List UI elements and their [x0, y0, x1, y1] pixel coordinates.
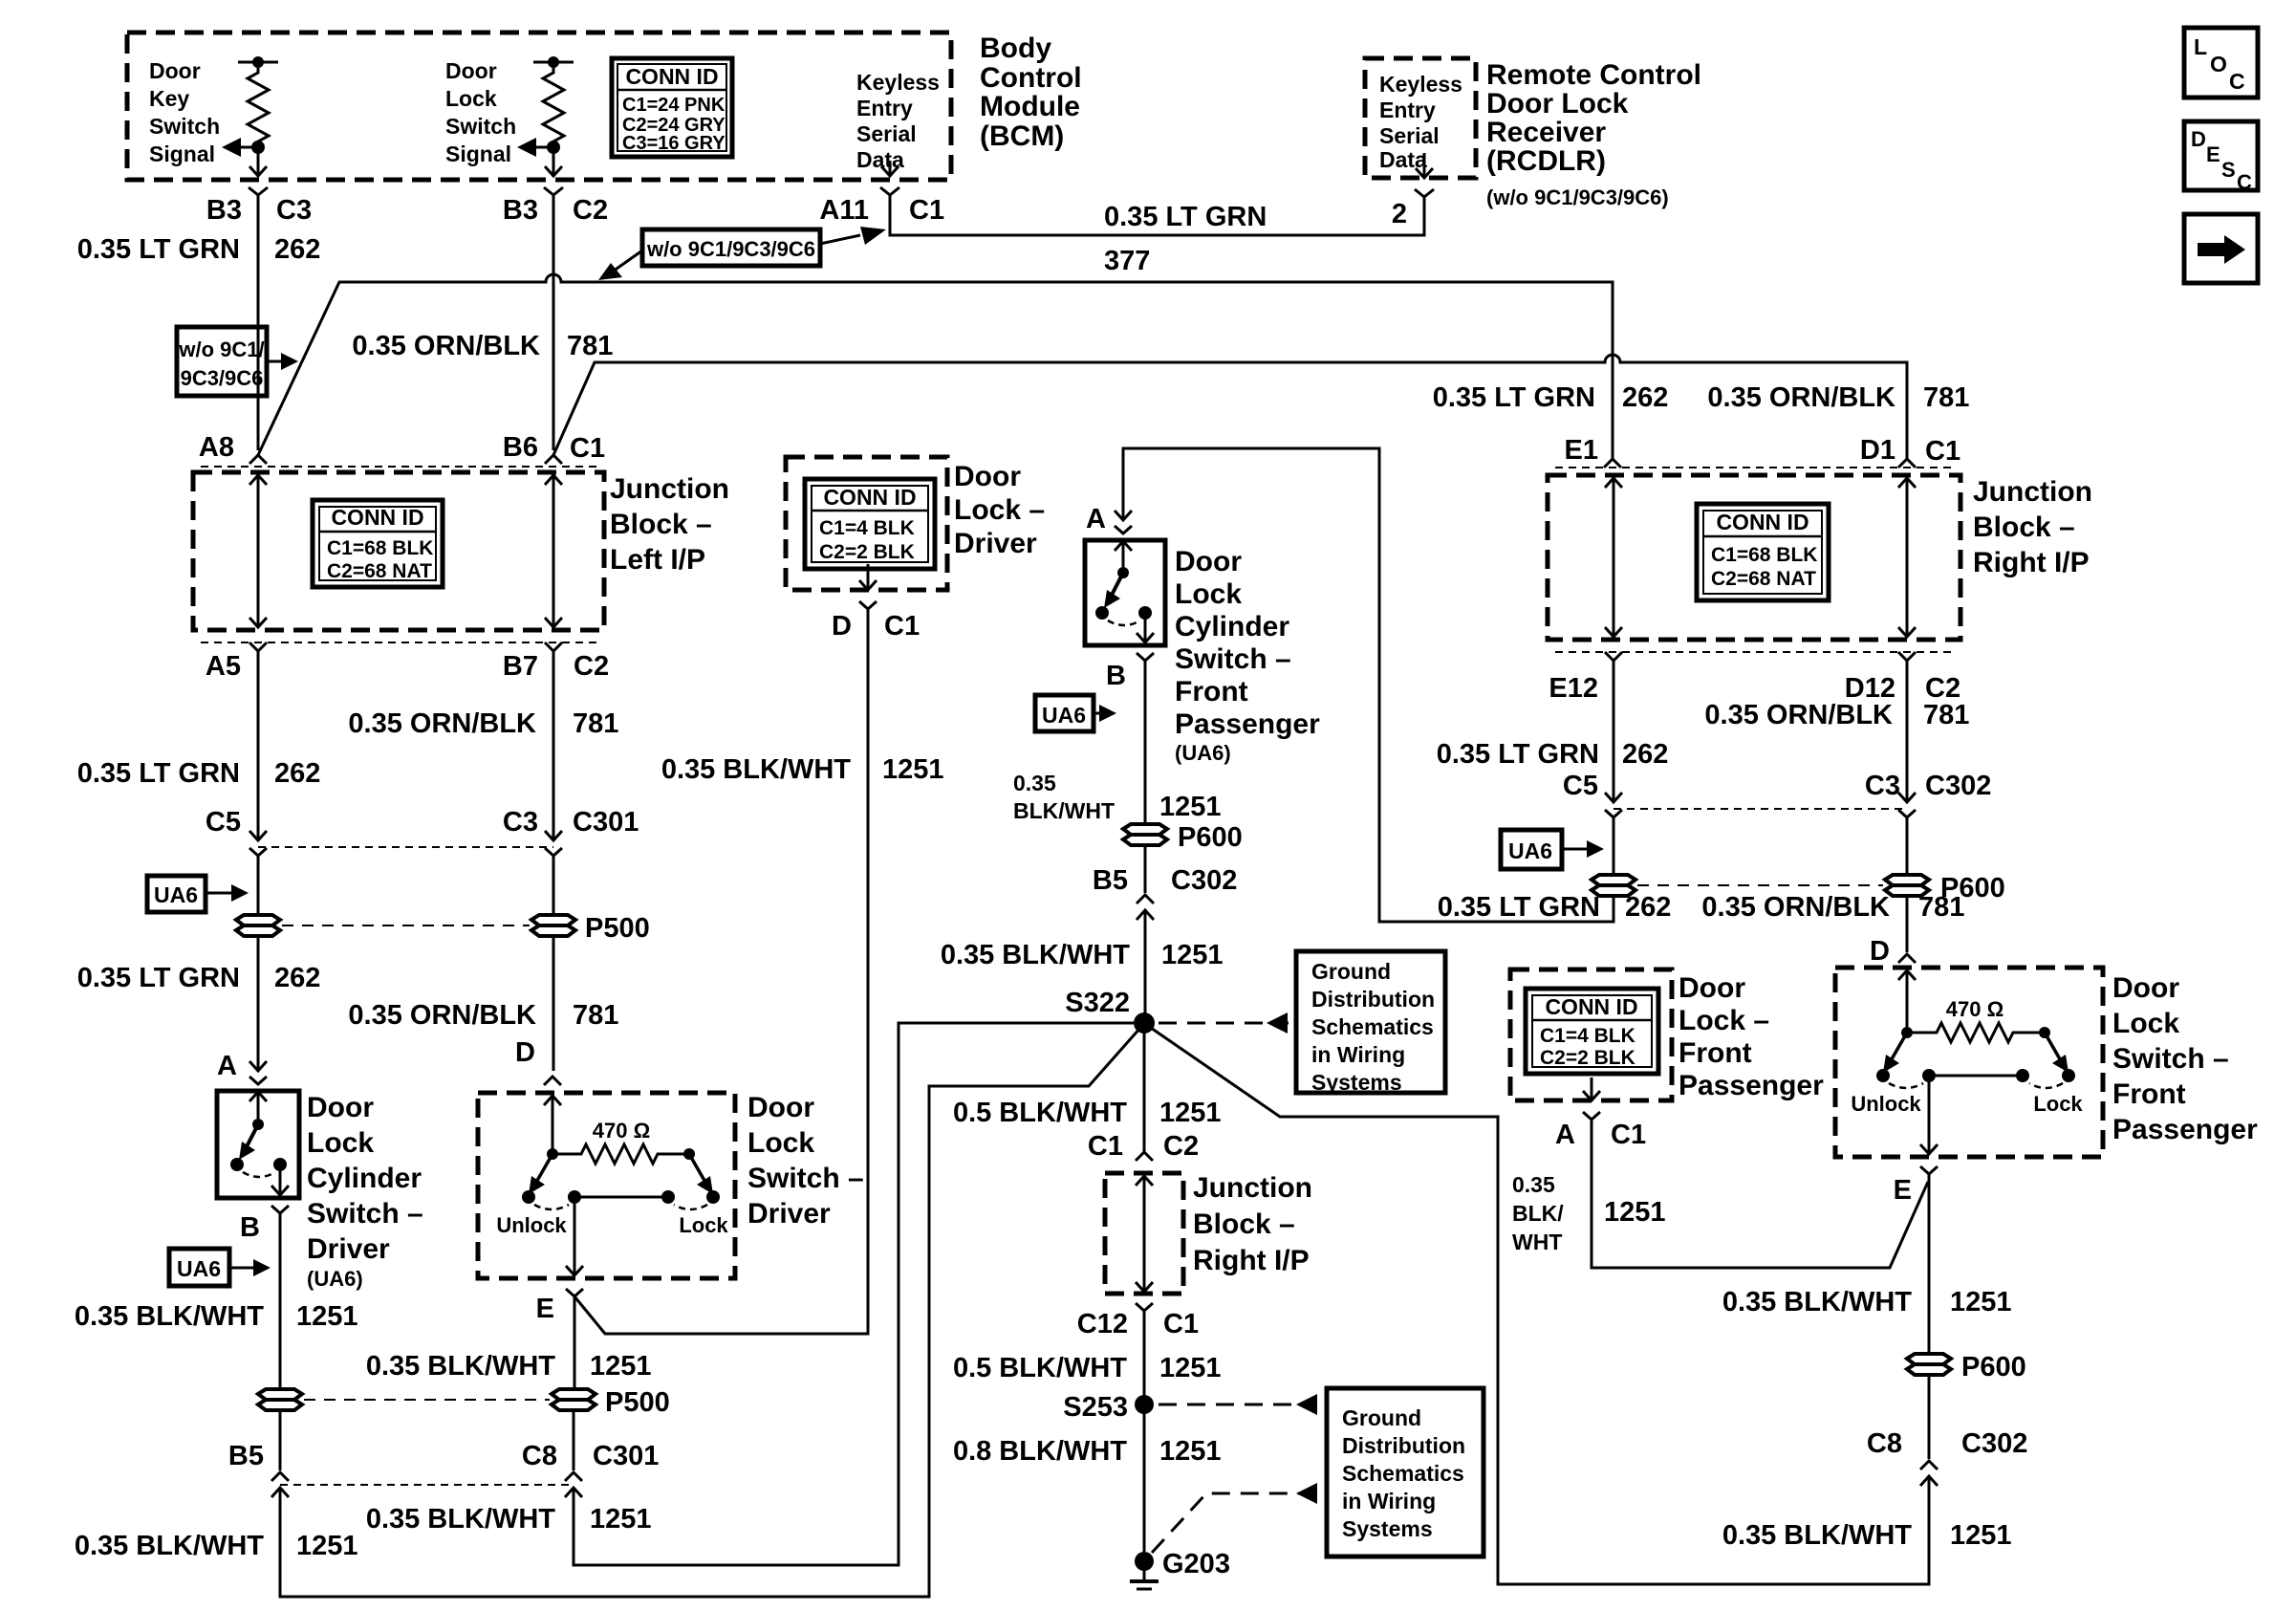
svg-text:0.35 ORN/BLK: 0.35 ORN/BLK: [1707, 382, 1895, 413]
svg-text:Cylinder: Cylinder: [1175, 611, 1289, 642]
svg-text:C3=16 GRY: C3=16 GRY: [622, 133, 726, 154]
svg-text:0.35 BLK/WHT: 0.35 BLK/WHT: [1722, 1287, 1912, 1317]
svg-text:1251: 1251: [1950, 1520, 2012, 1551]
label 0.35 LT GRN 262 (right bottom): [1438, 892, 1672, 923]
svg-text:C8: C8: [522, 1441, 557, 1471]
label 0.35 BLK/WHT 1251 (FP E wire): [1722, 1287, 2012, 1317]
svg-text:A5: A5: [206, 651, 241, 682]
svg-text:Lock: Lock: [1175, 578, 1242, 610]
pin A arrow and fork (FP cylinder switch): [1115, 511, 1132, 533]
label Door Lock Switch Signal: [445, 58, 516, 166]
svg-text:781: 781: [1923, 700, 1969, 730]
svg-text:B: B: [1106, 661, 1126, 691]
svg-text:Lock: Lock: [747, 1127, 814, 1159]
svg-text:Right I/P: Right I/P: [1193, 1245, 1310, 1276]
connector C5 fork and arrow (right): [1605, 793, 1622, 817]
svg-text:Ground: Ground: [1342, 1405, 1421, 1430]
wire B5 to S322: [1144, 910, 1147, 1013]
svg-text:0.35 ORN/BLK: 0.35 ORN/BLK: [352, 331, 540, 361]
svg-text:C302: C302: [1961, 1428, 2027, 1459]
pin A C1 fork (door lock FP): [1583, 1112, 1600, 1120]
pin A8 fork: [249, 455, 267, 464]
label 0.35 LT GRN 262 (top left): [77, 234, 321, 265]
wire P600 to B5 connector: [1144, 845, 1147, 893]
svg-text:UA6: UA6: [177, 1256, 221, 1281]
connector line C1 (junction block left top): [201, 466, 597, 468]
svg-text:C1=24 PNK: C1=24 PNK: [622, 95, 726, 116]
svg-text:Keyless: Keyless: [1379, 72, 1462, 97]
svg-text:B: B: [240, 1212, 260, 1243]
svg-text:O: O: [2210, 52, 2227, 76]
connector C3/C301 (arrow and fork): [545, 831, 562, 856]
svg-text:C1: C1: [1925, 436, 1960, 467]
svg-text:781: 781: [573, 1000, 618, 1031]
splice S253: [1135, 1395, 1154, 1414]
connector line P600 dashed: [1637, 884, 1883, 886]
svg-text:Systems: Systems: [1342, 1516, 1433, 1541]
svg-text:C2=68 NAT: C2=68 NAT: [1711, 568, 1816, 590]
resistor 470 ohm (driver switch): [544, 1096, 695, 1164]
svg-text:B5: B5: [1093, 865, 1128, 896]
svg-text:w/o 9C1/: w/o 9C1/: [178, 337, 264, 361]
Door Lock Front Passenger connector dashed box: [1510, 969, 1672, 1100]
pin 2 fork: [1415, 189, 1434, 197]
svg-text:Signal: Signal: [149, 142, 215, 166]
svg-text:Door: Door: [2112, 972, 2179, 1004]
svg-text:Body: Body: [980, 33, 1051, 64]
svg-text:C1: C1: [1611, 1120, 1646, 1150]
wire B down to P600 (FP cyl): [1144, 661, 1147, 824]
Junction Block Right I/P dashed box: [1548, 475, 1960, 640]
wire B5 lower segment: [279, 1410, 282, 1470]
small JB internal wire: [1136, 1176, 1153, 1292]
svg-text:1251: 1251: [1161, 940, 1224, 970]
svg-text:D: D: [832, 611, 852, 642]
svg-text:C302: C302: [1925, 771, 1991, 801]
pin B3 C3 fork: [249, 187, 268, 195]
ground G203: [1130, 1552, 1159, 1589]
svg-text:Lock: Lock: [679, 1213, 728, 1237]
svg-text:2: 2: [1392, 199, 1407, 229]
door lock cylinder switch front passenger box: [1085, 540, 1165, 645]
svg-text:470 Ω: 470 Ω: [593, 1119, 650, 1143]
inline connector P600 (ORN/BLK right): [1885, 875, 1929, 896]
svg-text:1251: 1251: [1159, 1353, 1222, 1383]
label Junction Block - Left I/P: [610, 473, 729, 576]
label Keyless Entry Serial Data (RCDLR): [1379, 72, 1462, 172]
wire S322 down to junction block: [1143, 1023, 1146, 1152]
switch contacts (FP cylinder switch): [1095, 540, 1154, 642]
svg-text:C3: C3: [503, 807, 538, 838]
svg-text:Lock: Lock: [2033, 1092, 2083, 1116]
svg-text:Driver: Driver: [307, 1233, 390, 1265]
svg-text:0.35 ORN/BLK: 0.35 ORN/BLK: [1704, 700, 1893, 730]
svg-text:D: D: [1870, 936, 1890, 967]
label Junction Block - Right I/P (small): [1193, 1172, 1312, 1276]
svg-text:0.35 BLK/WHT: 0.35 BLK/WHT: [941, 940, 1130, 970]
svg-text:0.35 LT GRN: 0.35 LT GRN: [1438, 892, 1600, 923]
label 0.35 LT GRN 262 (to right JB): [1433, 382, 1669, 413]
connector line (junction block right bottom): [1555, 651, 1953, 653]
svg-text:0.35 BLK/WHT: 0.35 BLK/WHT: [366, 1504, 555, 1535]
svg-text:D1: D1: [1860, 435, 1895, 466]
svg-text:Lock: Lock: [307, 1127, 374, 1159]
svg-text:C2=68 NAT: C2=68 NAT: [327, 560, 432, 582]
svg-text:E: E: [536, 1294, 554, 1324]
w/o 9C1/ 9C3/9C6 box (left): [177, 327, 267, 396]
svg-text:1251: 1251: [590, 1504, 652, 1535]
svg-text:G203: G203: [1162, 1549, 1230, 1579]
svg-text:0.35 ORN/BLK: 0.35 ORN/BLK: [348, 708, 536, 739]
junction block right internal wire D1-D12: [1898, 478, 1916, 637]
svg-text:BLK/: BLK/: [1512, 1201, 1564, 1226]
svg-text:Door: Door: [149, 58, 201, 83]
svg-text:Passenger: Passenger: [2112, 1114, 2258, 1145]
label 0.35 ORN/BLK 781 (below JB right): [1704, 700, 1969, 730]
svg-text:1251: 1251: [296, 1531, 358, 1561]
pin B fork (FP cylinder switch): [1137, 653, 1154, 661]
Remote Control Door Lock Receiver dashed box: [1365, 58, 1476, 178]
svg-text:Front: Front: [1175, 676, 1248, 708]
svg-text:A11: A11: [819, 195, 869, 226]
inline connector P600 (FP cyl wire): [1123, 824, 1167, 845]
svg-text:Distribution: Distribution: [1342, 1433, 1465, 1458]
svg-text:Front: Front: [1679, 1037, 1752, 1069]
svg-text:781: 781: [1923, 382, 1969, 413]
label Door Lock Cylinder Switch - Driver (UA6): [307, 1092, 423, 1291]
pin C1/C2 fork (small JB): [1136, 1152, 1153, 1161]
svg-text:Door: Door: [445, 58, 497, 83]
svg-text:1251: 1251: [882, 754, 944, 785]
wire C302 to S322 (FP ground return): [1148, 1026, 1929, 1584]
svg-text:Door: Door: [1175, 546, 1242, 577]
svg-text:262: 262: [1622, 382, 1668, 413]
svg-text:C1=4 BLK: C1=4 BLK: [1540, 1025, 1635, 1047]
svg-text:C2: C2: [1163, 1131, 1199, 1162]
svg-text:Module: Module: [980, 91, 1080, 122]
svg-text:0.35 LT GRN: 0.35 LT GRN: [77, 234, 240, 265]
UA6 left arrow: [206, 884, 249, 902]
svg-text:E12: E12: [1549, 673, 1598, 704]
svg-text:D: D: [2191, 127, 2206, 151]
svg-text:0.35 BLK/WHT: 0.35 BLK/WHT: [75, 1301, 264, 1332]
svg-text:Distribution: Distribution: [1311, 987, 1435, 1012]
pin B3 C2 fork: [544, 187, 563, 195]
svg-text:Switch –: Switch –: [307, 1198, 423, 1230]
CONN ID box (junction block right): [1697, 504, 1829, 600]
svg-text:B5: B5: [228, 1441, 264, 1471]
pin A arrow and fork (driver cylinder switch): [249, 1061, 267, 1084]
pin B6 C1 fork: [545, 455, 562, 464]
svg-text:C301: C301: [573, 807, 639, 838]
connector line P500 dashed: [282, 925, 530, 926]
svg-text:Remote Control: Remote Control: [1486, 59, 1701, 91]
label 0.5 BLK/WHT 1251 (above small JB): [953, 1098, 1222, 1128]
svg-text:262: 262: [274, 758, 320, 789]
label Door Lock - Front Passenger: [1679, 972, 1824, 1101]
svg-text:1251: 1251: [1950, 1287, 2012, 1317]
wire ORN/BLK to FP switch D: [1906, 896, 1909, 952]
connector B5/C302 fork and arrow (FP): [1137, 895, 1154, 920]
wire A11 C1 to RCDLR pin 2: [890, 195, 1424, 235]
svg-text:Right I/P: Right I/P: [1973, 547, 2090, 578]
junction block left internal wire A8-A5: [249, 475, 267, 627]
label 0.35 BLK/WHT 1251 (above S322): [941, 940, 1224, 970]
svg-text:0.5 BLK/WHT: 0.5 BLK/WHT: [953, 1353, 1127, 1383]
junction block left internal wire B6-B7: [545, 475, 562, 627]
svg-text:Entry: Entry: [1379, 98, 1436, 122]
label Junction Block - Right I/P: [1973, 476, 2092, 578]
connector C5 (arrow and fork): [249, 831, 267, 856]
svg-text:B7: B7: [503, 651, 538, 682]
pin E1 fork: [1604, 459, 1621, 468]
wire E down to C8 (driver switch): [574, 1296, 574, 1470]
svg-text:1251: 1251: [1159, 1436, 1222, 1467]
svg-text:E: E: [2206, 142, 2220, 166]
door lock switch driver dashed box: [478, 1093, 735, 1278]
svg-text:C1: C1: [909, 195, 944, 226]
DESC box: [2184, 121, 2258, 194]
svg-text:C5: C5: [1563, 771, 1598, 801]
svg-text:S253: S253: [1063, 1392, 1128, 1423]
svg-text:0.35: 0.35: [1013, 771, 1056, 795]
svg-text:Switch –: Switch –: [2112, 1043, 2229, 1075]
label Door Lock Switch - Front Passenger: [2112, 972, 2258, 1145]
svg-text:Data: Data: [1379, 147, 1427, 172]
svg-text:Block –: Block –: [1193, 1208, 1295, 1240]
svg-text:CONN ID: CONN ID: [625, 64, 718, 89]
svg-text:L: L: [2194, 34, 2207, 59]
svg-text:0.8 BLK/WHT: 0.8 BLK/WHT: [953, 1436, 1127, 1467]
svg-text:C2=2 BLK: C2=2 BLK: [819, 541, 915, 563]
svg-text:C1: C1: [884, 611, 920, 642]
w/o 9C1/9C3/9C6 callout box: [642, 229, 820, 266]
svg-text:B3: B3: [206, 195, 242, 226]
door lock driver pin arrow (internal): [859, 564, 877, 590]
label 0.35 BLK/WHT 1251 (FP cyl): [1013, 771, 1222, 823]
label 0.35 ORN/BLK 781 (to right JB): [1707, 382, 1969, 413]
svg-text:Junction: Junction: [1973, 476, 2092, 508]
svg-text:P500: P500: [585, 913, 650, 944]
keyless entry pin arrow (BCM internal): [881, 161, 899, 176]
svg-text:C: C: [2237, 170, 2252, 194]
svg-text:C12: C12: [1077, 1309, 1128, 1339]
label 0.35 BLK/WHT 1251 (driver cyl): [75, 1301, 358, 1332]
pin B7 C2 fork: [545, 642, 562, 651]
svg-text:Systems: Systems: [1311, 1070, 1402, 1095]
svg-text:262: 262: [274, 963, 320, 993]
svg-text:Front: Front: [2112, 1078, 2186, 1110]
svg-text:781: 781: [573, 708, 618, 739]
CONN ID box (BCM): [612, 58, 732, 157]
svg-text:0.35 BLK/WHT: 0.35 BLK/WHT: [1722, 1520, 1912, 1551]
label Door Lock Cylinder Switch - Front Passenger (UA6): [1175, 546, 1320, 765]
svg-text:C3: C3: [1865, 771, 1900, 801]
connector line C301 dashed (lower): [280, 1484, 574, 1486]
svg-text:P500: P500: [605, 1387, 670, 1418]
svg-text:C: C: [2229, 69, 2245, 94]
pin A5 fork: [249, 642, 267, 651]
label 0.35 BLK/WHT 1251 (FP bottom): [1722, 1520, 2012, 1551]
pin D1 C1 fork: [1898, 459, 1916, 468]
svg-text:Key: Key: [149, 86, 189, 111]
wire B5 to S322 branch (via riser): [280, 1028, 1140, 1597]
pin D C1 fork (door lock driver): [859, 601, 877, 609]
svg-text:Schematics: Schematics: [1311, 1014, 1434, 1039]
svg-text:Keyless: Keyless: [856, 70, 940, 95]
svg-text:CONN ID: CONN ID: [1545, 994, 1637, 1019]
switch contacts unlock/lock (FP switch): [1876, 1033, 2075, 1154]
Ground Distribution box (upper): [1296, 951, 1445, 1095]
CONN ID box (junction block left): [313, 500, 443, 587]
svg-text:262: 262: [1622, 739, 1668, 770]
svg-text:B3: B3: [503, 195, 538, 226]
wire door lock FP ground: [1592, 1120, 1928, 1268]
Body Control Module (BCM) dashed box: [127, 33, 951, 180]
svg-text:Switch: Switch: [445, 114, 516, 139]
svg-text:C1: C1: [1088, 1131, 1123, 1162]
UA6 option box (right): [1501, 830, 1562, 869]
label 0.5 BLK/WHT 1251 (above S253): [953, 1353, 1222, 1383]
connector line C1 (junction block right top): [1555, 467, 1953, 468]
inline connector P600 (FP E wire): [1907, 1354, 1951, 1375]
svg-text:C2: C2: [574, 651, 609, 682]
svg-text:Schematics: Schematics: [1342, 1461, 1464, 1486]
svg-text:S322: S322: [1065, 988, 1130, 1018]
wire C302 to P600 (right): [1906, 817, 1909, 875]
svg-text:1251: 1251: [1604, 1197, 1666, 1228]
switch contacts unlock/lock (driver switch): [522, 1154, 720, 1275]
inline connector P500 (E wire): [552, 1389, 596, 1410]
svg-text:(BCM): (BCM): [980, 120, 1064, 152]
svg-text:0.35 ORN/BLK: 0.35 ORN/BLK: [348, 1000, 536, 1031]
pin D fork (FP door lock switch): [1898, 954, 1916, 963]
label Remote Control Door Lock Receiver (RCDLR): [1486, 59, 1701, 209]
label Body Control Module (BCM): [980, 33, 1082, 152]
wire C301 to S322 (via riser): [574, 1023, 1134, 1565]
inline connector P500 (driver cyl wire): [258, 1389, 302, 1410]
svg-text:A: A: [1555, 1120, 1575, 1150]
svg-text:C2: C2: [573, 195, 608, 226]
svg-text:C301: C301: [593, 1441, 659, 1471]
wire C5 to P500: [257, 856, 260, 1071]
svg-text:CONN ID: CONN ID: [823, 485, 916, 510]
svg-text:Lock: Lock: [2112, 1008, 2179, 1039]
label 0.35 BLK/WHT 1251 (bottom left): [75, 1531, 358, 1561]
door lock switch front passenger dashed box: [1835, 968, 2103, 1157]
svg-text:0.35 LT GRN: 0.35 LT GRN: [1104, 202, 1267, 232]
svg-text:Door: Door: [1679, 972, 1745, 1004]
svg-text:Lock –: Lock –: [954, 494, 1045, 526]
label 0.35 ORN/BLK 781 (right bottom): [1701, 892, 1964, 923]
wire B3/C3 down to A8: [257, 195, 260, 450]
svg-text:0.35 BLK/WHT: 0.35 BLK/WHT: [366, 1351, 555, 1382]
svg-text:B6: B6: [503, 432, 538, 463]
label 0.35 BLK/WHT 1251 (door lock driver): [661, 754, 944, 785]
Door Lock Driver connector dashed box: [786, 457, 947, 590]
CONN ID box (door lock front passenger): [1526, 989, 1658, 1074]
connector C3/C302 fork and arrow (right): [1898, 793, 1916, 817]
svg-text:1251: 1251: [590, 1351, 652, 1382]
junction block right internal wire E1-E12: [1605, 478, 1622, 637]
wire door lock driver ground (BLK/WHT): [574, 609, 868, 1334]
wire C5 to P600 (right): [1613, 817, 1615, 875]
svg-text:9C3/9C6: 9C3/9C6: [181, 366, 264, 390]
wire E12 down to C5: [1613, 661, 1615, 800]
svg-text:C2=2 BLK: C2=2 BLK: [1540, 1047, 1635, 1069]
svg-text:Unlock: Unlock: [1851, 1092, 1921, 1116]
label 0.8 BLK/WHT 1251 (above G203): [953, 1436, 1222, 1467]
svg-text:Door Lock: Door Lock: [1486, 88, 1629, 120]
svg-text:Signal: Signal: [445, 142, 511, 166]
wire A5 down to C5: [257, 651, 260, 838]
svg-text:C1=4 BLK: C1=4 BLK: [819, 517, 915, 539]
pin E12 fork: [1605, 652, 1622, 661]
svg-text:0.35 LT GRN: 0.35 LT GRN: [1437, 739, 1599, 770]
svg-text:CONN ID: CONN ID: [331, 505, 423, 530]
wire B7 down to C3: [552, 651, 555, 838]
svg-text:C1: C1: [570, 433, 605, 464]
label Keyless Entry Serial Data (BCM): [856, 70, 940, 172]
UA6 option box (left): [147, 876, 206, 912]
svg-text:(RCDLR): (RCDLR): [1486, 145, 1606, 177]
svg-text:w/o 9C1/9C3/9C6: w/o 9C1/9C3/9C6: [646, 237, 815, 261]
pin E fork (driver switch): [566, 1289, 583, 1296]
svg-text:Switch –: Switch –: [747, 1163, 864, 1194]
inline connector P500 (left wire): [236, 915, 280, 936]
svg-text:C302: C302: [1171, 865, 1237, 896]
S322 reference dashed arrow: [1159, 1012, 1289, 1034]
svg-text:Unlock: Unlock: [496, 1213, 567, 1237]
wire small JB to S253: [1143, 1311, 1146, 1552]
UA6 driver arrow: [229, 1259, 271, 1276]
pin D fork (driver door lock switch): [544, 1077, 561, 1085]
label 0.35 LT GRN 262 (below JB right): [1437, 739, 1669, 770]
svg-text:0.35 LT GRN: 0.35 LT GRN: [77, 963, 240, 993]
svg-text:E1: E1: [1565, 435, 1598, 466]
svg-text:UA6: UA6: [154, 882, 198, 907]
wire ORN/BLK 781 bus B6/C1 to D1 (with hop over LT GRN vertical): [553, 355, 1907, 459]
S253 reference dashed arrow: [1159, 1394, 1317, 1415]
svg-text:Passenger: Passenger: [1175, 708, 1320, 740]
svg-text:WHT: WHT: [1512, 1230, 1562, 1254]
svg-text:0.35 LT GRN: 0.35 LT GRN: [77, 758, 240, 789]
resistor door lock switch (BCM internal): [517, 56, 574, 176]
LOC box: [2184, 28, 2258, 98]
label 0.35 LT GRN 262 (below JB left): [77, 758, 321, 789]
CONN ID box (door lock driver): [805, 479, 935, 569]
svg-text:D: D: [515, 1037, 535, 1068]
label 0.35 ORN/BLK 781 (below JB left): [348, 708, 618, 739]
svg-text:0.5 BLK/WHT: 0.5 BLK/WHT: [953, 1098, 1127, 1128]
svg-text:0.35: 0.35: [1512, 1172, 1555, 1197]
label 0.35 BLK/WHT 1251 (door lock FP): [1512, 1172, 1666, 1254]
svg-text:Switch: Switch: [149, 114, 220, 139]
svg-text:Junction: Junction: [610, 473, 729, 505]
connector C8/C301 fork and arrow: [565, 1472, 582, 1497]
w/o left box arrow: [267, 353, 298, 370]
svg-text:Door: Door: [307, 1092, 374, 1123]
svg-text:C3: C3: [276, 195, 312, 226]
connector C8/C302 fork and arrow (FP): [1920, 1461, 1938, 1486]
svg-text:Driver: Driver: [954, 528, 1037, 559]
wire B3/C2 down to B6/C1: [552, 195, 555, 450]
svg-text:781: 781: [567, 331, 613, 361]
svg-text:A8: A8: [199, 432, 234, 463]
label 0.35 BLK/WHT 1251 (E wire): [366, 1351, 652, 1382]
svg-text:Entry: Entry: [856, 96, 913, 120]
svg-text:S: S: [2221, 158, 2236, 182]
